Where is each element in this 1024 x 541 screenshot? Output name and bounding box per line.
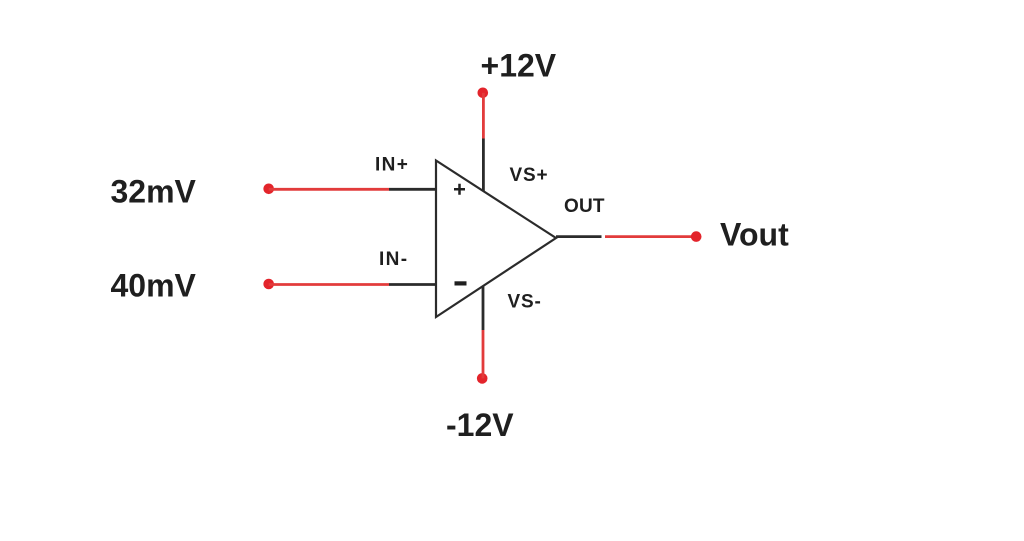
wire VS- red segment xyxy=(482,330,485,378)
svg-text:VS+: VS+ xyxy=(510,165,549,186)
op-amp minus input sign xyxy=(455,281,467,285)
wire VS+ red segment xyxy=(482,93,485,139)
wire VS- black segment xyxy=(482,287,485,331)
wire IN+ red segment xyxy=(269,188,389,191)
svg-text:IN-: IN- xyxy=(379,249,409,270)
wire IN- black segment xyxy=(389,283,436,286)
node dot IN+ source xyxy=(263,184,274,195)
wire VS+ black segment xyxy=(482,139,485,192)
svg-text:VS-: VS- xyxy=(508,292,542,313)
svg-text:40mV: 40mV xyxy=(111,268,197,304)
op-amp U1 triangle xyxy=(436,161,556,318)
svg-text:Vout: Vout xyxy=(720,217,789,253)
svg-text:-12V: -12V xyxy=(446,407,514,443)
wire OUT black segment xyxy=(556,235,602,238)
svg-text:+12V: +12V xyxy=(481,48,557,84)
wire IN- red segment xyxy=(269,283,389,286)
svg-text:IN+: IN+ xyxy=(375,155,409,176)
op-amp plus input sign xyxy=(454,184,465,195)
node dot IN- source xyxy=(263,279,274,290)
svg-text:OUT: OUT xyxy=(564,196,605,217)
supply node dot top xyxy=(478,88,489,99)
supply node dot bottom xyxy=(477,373,488,384)
svg-text:32mV: 32mV xyxy=(111,174,197,210)
node dot Vout xyxy=(691,231,702,242)
wire OUT red segment xyxy=(605,235,696,238)
wire IN+ black segment xyxy=(389,188,436,191)
